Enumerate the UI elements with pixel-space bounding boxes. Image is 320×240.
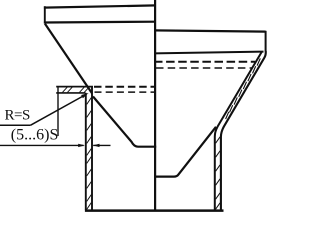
left hopper band left edge [44, 6, 46, 23]
leader line to bend radius [31, 95, 85, 125]
hidden (dashed) line upper left [94, 86, 156, 88]
hidden (dashed) line lower left [95, 91, 157, 93]
left hopper band top edge [44, 5, 156, 7]
hidden (dashed) line lower right [156, 67, 252, 69]
right hopper band top edge [154, 30, 266, 31]
hidden (dashed) line upper right [154, 61, 255, 63]
right hopper band bottom edge [154, 52, 264, 54]
right cone outer line into pipe outer wall [221, 51, 266, 210]
flange strip bottom edge [56, 92, 85, 94]
svg-text:R=S: R=S [5, 108, 30, 124]
left hopper band bottom edge [44, 21, 156, 24]
right inner visible edge (far side of bend) [156, 127, 216, 177]
centerline dividing half-view and half-section [154, 0, 156, 210]
flange strip hatching [62, 87, 89, 92]
right hopper band right edge [265, 31, 267, 52]
dimension line right part [93, 144, 110, 146]
pipe wall right line (section) [91, 87, 93, 210]
leader line underline of R=S [0, 124, 31, 126]
arrowhead dimension right-pointing [78, 144, 85, 147]
svg-text:(5...6)S: (5...6)S [11, 126, 59, 143]
left cone outer line [45, 24, 92, 94]
flange strip top edge [56, 86, 93, 88]
left inner visible edge (cone-to-pipe far side) [93, 97, 156, 147]
pipe wall left line (section) [85, 93, 87, 210]
pipe wall hatching [87, 98, 92, 210]
right cone wall hatching [226, 58, 261, 119]
right cone inner line into pipe inner wall [215, 52, 262, 210]
arrowhead of leader [81, 93, 89, 98]
flange strip left edge and stub below [57, 86, 59, 136]
dimension line left part [0, 144, 84, 146]
bottom edge line of outlet pipe [85, 209, 224, 212]
right pipe wall hatching [216, 137, 221, 209]
arrowhead dimension left-pointing [93, 144, 100, 147]
